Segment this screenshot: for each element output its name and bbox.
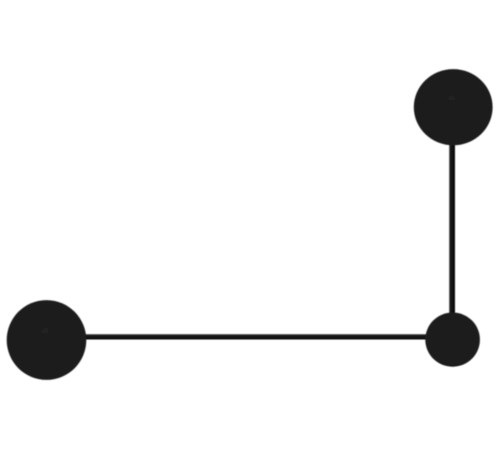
left lamp disc (7, 300, 87, 380)
junction disc (pivot joint) (425, 313, 480, 367)
top lamp disc (414, 69, 493, 145)
vertical rod (arm from top disc to junction disc) (449, 107, 455, 340)
horizontal rod (arm from left disc to junction disc) (45, 334, 453, 339)
